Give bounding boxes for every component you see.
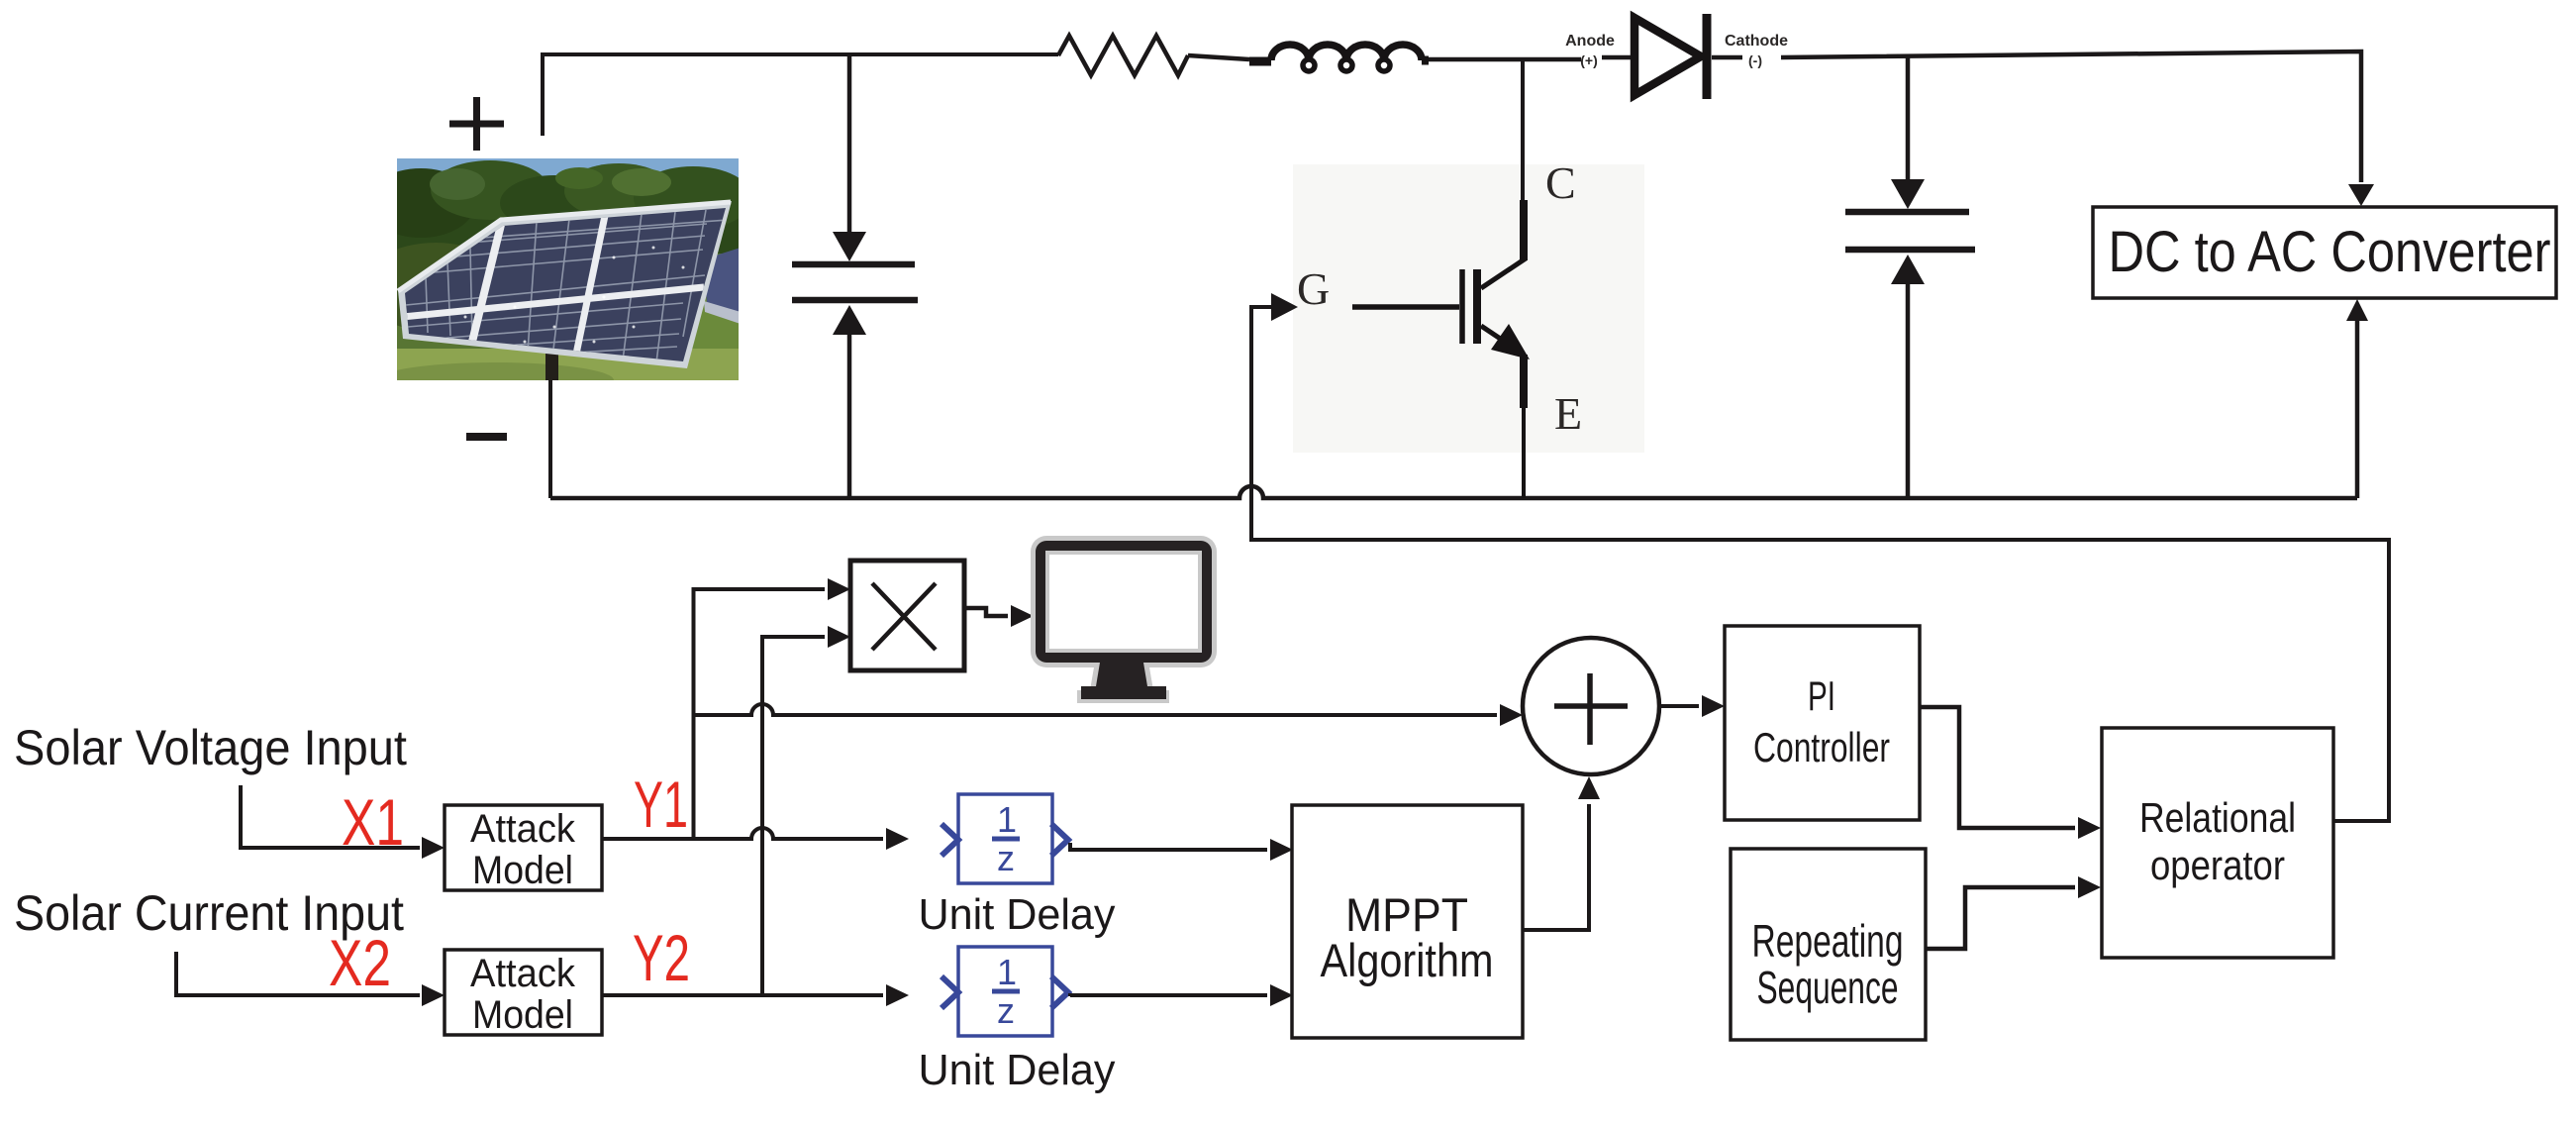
svg-text:X2: X2 xyxy=(329,926,391,999)
svg-text:Algorithm: Algorithm xyxy=(1321,934,1494,986)
capacitor C1 plates xyxy=(792,264,918,300)
svg-text:1: 1 xyxy=(997,952,1017,992)
svg-text:Unit Delay: Unit Delay xyxy=(919,890,1116,939)
svg-text:Sequence: Sequence xyxy=(1757,962,1899,1013)
wire: MPPT output up into summing junction xyxy=(1523,804,1589,930)
svg-text:operator: operator xyxy=(2150,842,2285,888)
svg-text:Attack: Attack xyxy=(470,952,576,995)
product block X xyxy=(850,561,964,670)
svg-text:C: C xyxy=(1545,157,1576,208)
wire: top bus from PV positive to resistor xyxy=(543,54,1058,136)
block: Attack Model 1 xyxy=(445,805,602,892)
wire: solar voltage input into attack model 1 xyxy=(241,785,420,848)
PV mounting post xyxy=(545,353,558,380)
block: DC to AC Converter xyxy=(2093,207,2556,298)
wire: solar current input into attack model 2 xyxy=(176,952,420,995)
wire: Y2 to unit delay 2 xyxy=(602,993,883,997)
capacitor C2 plates xyxy=(1845,212,1975,250)
wire: product output to scope xyxy=(964,608,1008,616)
svg-text:Cathode: Cathode xyxy=(1725,33,1788,50)
svg-text:Repeating: Repeating xyxy=(1752,915,1904,967)
wire: unit delay 2 to MPPT input 2 xyxy=(1070,995,1267,996)
wire: anode lead xyxy=(1602,55,1638,60)
wire: PV negative down to bottom bus xyxy=(548,380,552,498)
wire: cathode lead xyxy=(1712,55,1742,60)
svg-text:(+): (+) xyxy=(1580,52,1598,68)
svg-text:Y1: Y1 xyxy=(634,768,688,841)
svg-text:Unit Delay: Unit Delay xyxy=(919,1046,1116,1094)
svg-text:Y2: Y2 xyxy=(633,921,690,994)
diode D1 xyxy=(1635,14,1707,99)
node: diode anode label xyxy=(1565,33,1615,68)
wire: Y1 branch up to product input 1 xyxy=(694,589,826,839)
wire: repeating sequence to relational operator input 2 xyxy=(1926,887,2075,949)
svg-text:Controller: Controller xyxy=(1753,724,1890,770)
capacitor C2: bottom plate arrow xyxy=(1906,284,1911,498)
svg-text:Model: Model xyxy=(472,849,573,892)
block: PI Controller xyxy=(1725,626,1920,820)
resistor R1 xyxy=(1058,36,1188,75)
svg-text:Attack: Attack xyxy=(470,807,576,851)
block: Unit Delay 1 xyxy=(941,794,1068,883)
wire: Y1 to unit delay 1 (hop over Y2 branch) xyxy=(602,828,883,839)
wire: Y2 branch up to product input 2 xyxy=(762,637,825,995)
svg-text:E: E xyxy=(1554,388,1582,439)
capacitor C1: bottom plate arrow xyxy=(847,335,852,498)
wire: bottom bus (hop over gate feedback line at x=1264) xyxy=(550,486,2357,498)
block: Repeating Sequence xyxy=(1731,849,1926,1040)
main solar array xyxy=(398,201,732,368)
scope (display icon) xyxy=(1031,536,1217,703)
svg-text:G: G xyxy=(1297,263,1330,314)
block: MPPT Algorithm xyxy=(1292,805,1523,1038)
capacitor C2 output: top plate arrow xyxy=(1906,57,1911,179)
wire: summing junction to PI controller xyxy=(1659,704,1699,708)
svg-text:z: z xyxy=(997,990,1015,1031)
wire: resistor to inductor xyxy=(1188,55,1249,59)
block: Unit Delay 2 xyxy=(941,947,1068,1036)
wire: cathode to DC-AC converter xyxy=(1781,51,2361,182)
rear solar panel xyxy=(703,248,741,315)
wire: gate drive feedback (relational operator to gate G) xyxy=(1251,307,2389,821)
summing junction + xyxy=(1523,638,1659,774)
svg-text:(-): (-) xyxy=(1748,52,1762,68)
plus terminal label + xyxy=(449,97,504,151)
node: diode cathode label xyxy=(1725,33,1788,68)
block: Attack Model 2 xyxy=(445,950,602,1037)
block: Relational operator xyxy=(2102,728,2333,958)
wire: Y1 tap to summing junction xyxy=(694,704,1498,715)
svg-text:PI: PI xyxy=(1808,672,1835,719)
svg-text:Relational: Relational xyxy=(2139,794,2296,841)
inductor L1 xyxy=(1249,45,1429,71)
svg-text:Anode: Anode xyxy=(1565,33,1615,50)
wire: PI controller to relational operator input 1 xyxy=(1920,707,2075,828)
svg-text:1: 1 xyxy=(997,799,1017,840)
wire: inductor to anode xyxy=(1429,57,1581,62)
solar panel PV1 (photo) xyxy=(361,158,772,398)
svg-text:DC to AC Converter: DC to AC Converter xyxy=(2109,220,2551,284)
svg-text:Model: Model xyxy=(472,993,573,1037)
minus terminal label - xyxy=(466,433,507,441)
wire: bottom bus up to DC-AC converter xyxy=(2355,319,2360,498)
svg-text:z: z xyxy=(997,838,1015,878)
capacitor C1 input: top plate arrow xyxy=(847,54,852,232)
svg-text:Solar Voltage Input: Solar Voltage Input xyxy=(14,720,407,775)
wire: unit delay 1 to MPPT input 1 xyxy=(1070,843,1267,850)
transistor Q1 IGBT xyxy=(1293,57,1644,498)
